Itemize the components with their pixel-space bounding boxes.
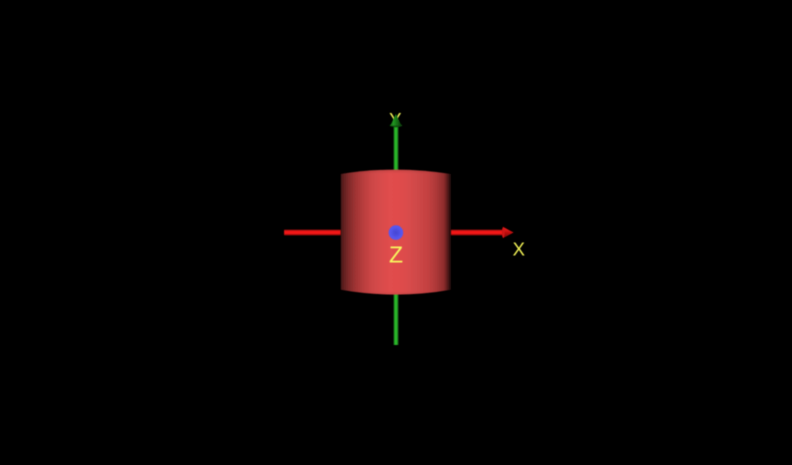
svg-text:Z: Z <box>389 241 403 267</box>
svg-text:X: X <box>513 239 525 260</box>
